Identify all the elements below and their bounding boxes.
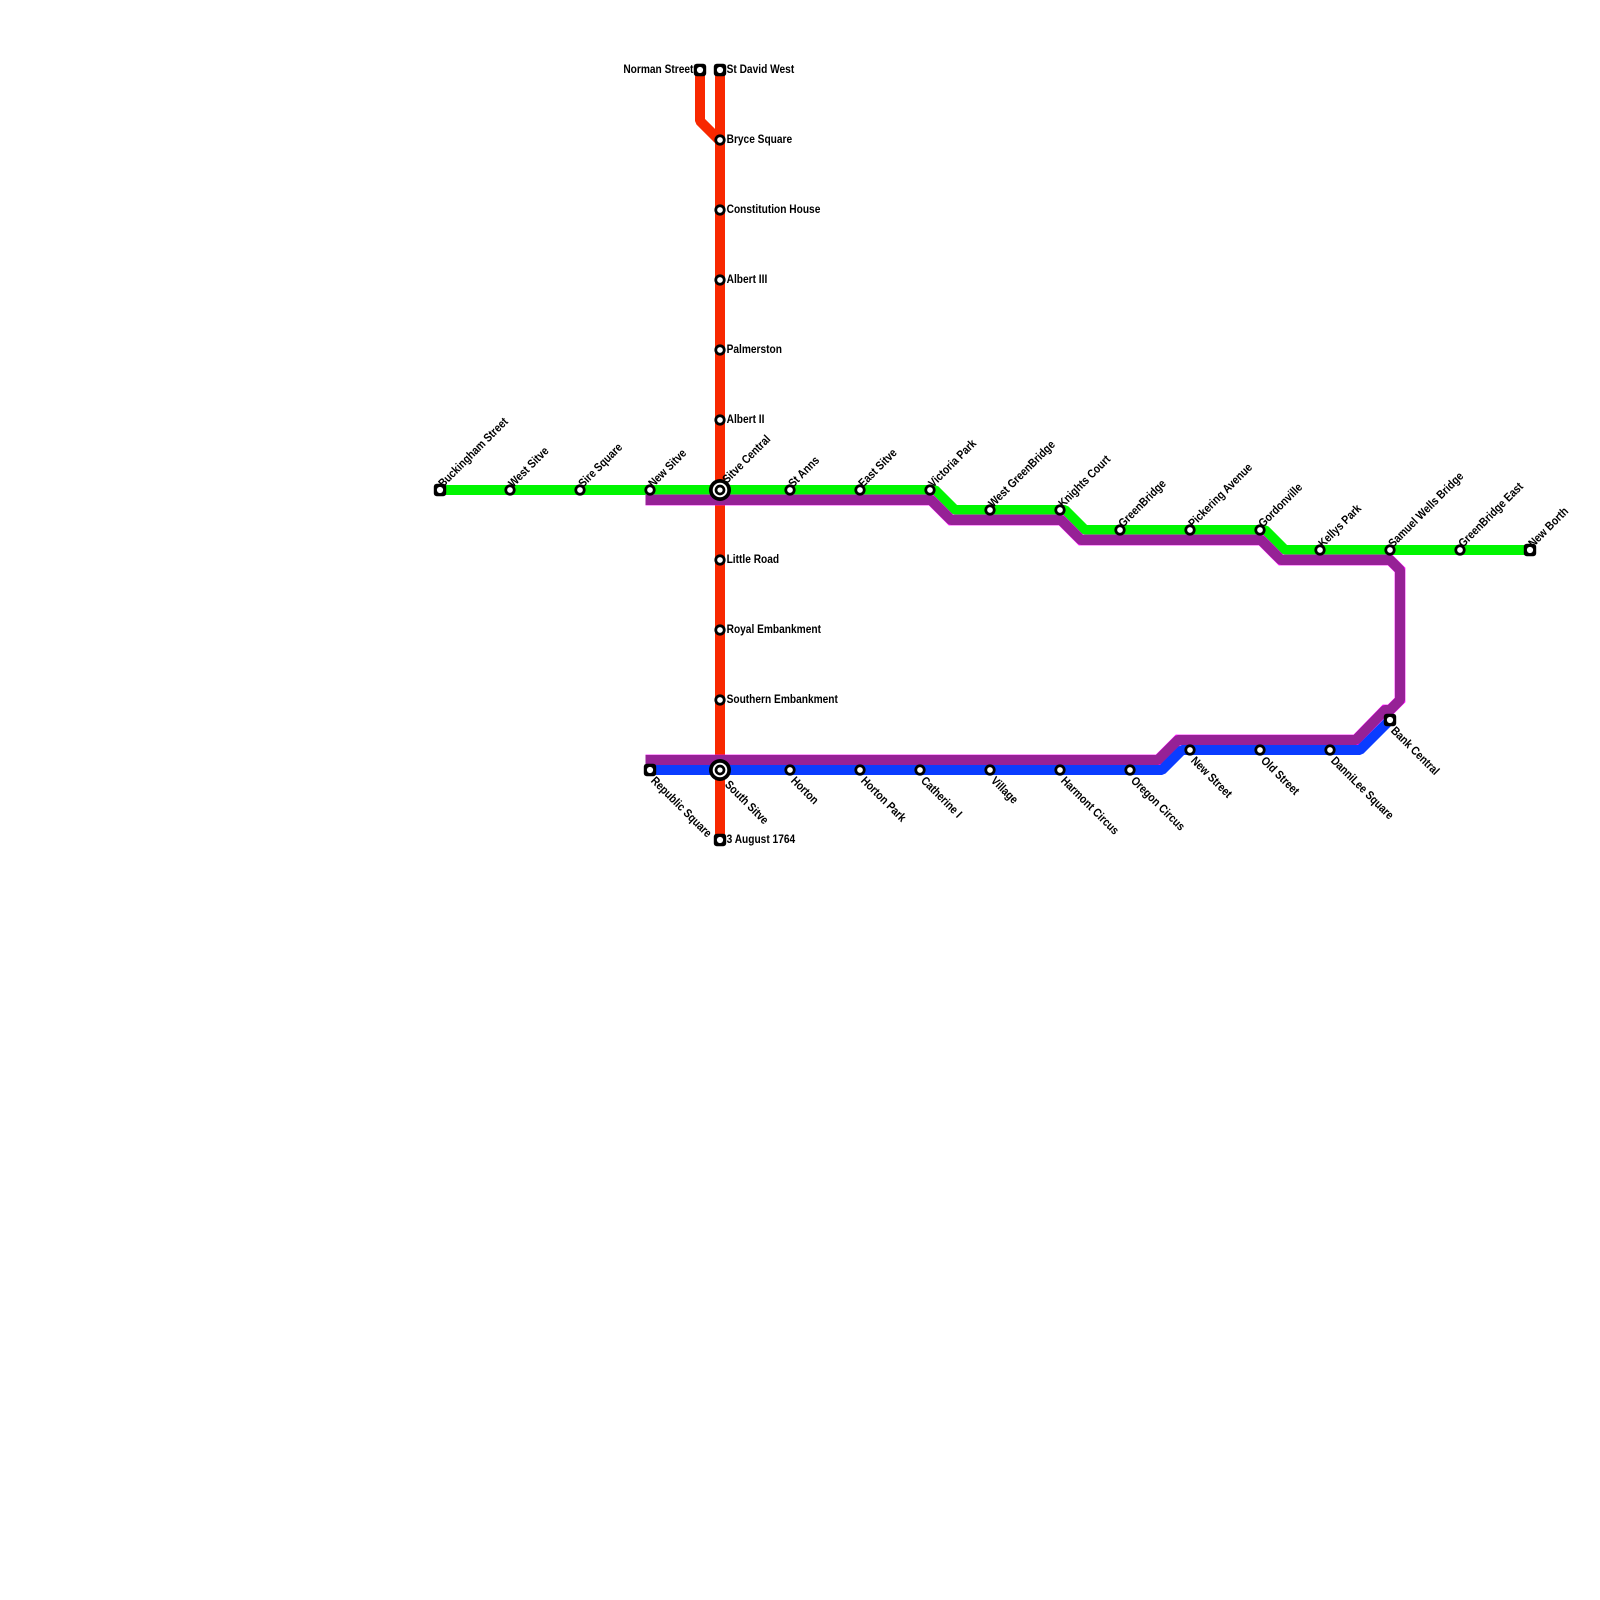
station GreenBridge East (1454, 544, 1465, 555)
station GreenBridge (1114, 524, 1125, 535)
svg-text:3 August 1764: 3 August 1764 (727, 833, 796, 846)
svg-text:Bryce Square: Bryce Square (727, 133, 793, 146)
terminal station Norman Street (694, 64, 706, 76)
station Oregon Circus (1124, 764, 1135, 775)
station Palmerston (714, 344, 725, 355)
station St Anns (784, 484, 795, 495)
station Village (984, 764, 995, 775)
station Victoria Park (924, 484, 935, 495)
svg-text:Palmerston: Palmerston (727, 343, 783, 356)
terminal station Bank Central (1384, 714, 1396, 726)
station Catherine I (914, 764, 925, 775)
station Constitution House (714, 204, 725, 215)
svg-text:Southern Embankment: Southern Embankment (727, 693, 839, 706)
terminal station 3 August 1764 (714, 834, 726, 846)
svg-text:Little Road: Little Road (727, 553, 780, 566)
station Old Street (1254, 744, 1265, 755)
station Horton (784, 764, 795, 775)
svg-text:Constitution House: Constitution House (727, 203, 821, 216)
svg-text:Albert III: Albert III (727, 273, 768, 286)
svg-text:Royal Embankment: Royal Embankment (727, 623, 822, 636)
purple line magenta fringe (646, 500, 1401, 760)
station Horton Park (854, 764, 865, 775)
purple line (646, 500, 1401, 760)
station Samuel Wells Bridge (1384, 544, 1395, 555)
svg-text:Norman Street: Norman Street (623, 63, 693, 76)
station New Street (1184, 744, 1195, 755)
svg-text:St David West: St David West (727, 63, 795, 76)
red line branch to Norman Street (700, 70, 719, 140)
terminal station New Borth (1524, 544, 1536, 556)
terminal station Buckingham Street (434, 484, 446, 496)
terminal station Republic Square (644, 764, 656, 776)
station DanniLee Square (1324, 744, 1335, 755)
station West GreenBridge (984, 504, 995, 515)
green line (440, 490, 1530, 550)
station Bryce Square (714, 134, 725, 145)
station Southern Embankment (714, 694, 725, 705)
station Albert II (714, 414, 725, 425)
labels layer (436, 63, 1571, 846)
station New Sitve (644, 484, 655, 495)
interchange station South Sitve (709, 759, 731, 781)
station Pickering Avenue (1184, 524, 1195, 535)
interchange station Sitve Central (709, 479, 731, 501)
station Royal Embankment (714, 624, 725, 635)
station East Sitve (854, 484, 865, 495)
terminal station St David West (714, 64, 726, 76)
station West Sitve (504, 484, 515, 495)
station Kellys Park (1314, 544, 1325, 555)
station Knights Court (1054, 504, 1065, 515)
station Albert III (714, 274, 725, 285)
red line main vertical (715, 70, 725, 840)
svg-text:Albert II: Albert II (727, 413, 765, 426)
station Gordonville (1254, 524, 1265, 535)
blue line (650, 720, 1390, 770)
station Little Road (714, 554, 725, 565)
station Harmont Circus (1054, 764, 1065, 775)
station Sire Square (574, 484, 585, 495)
